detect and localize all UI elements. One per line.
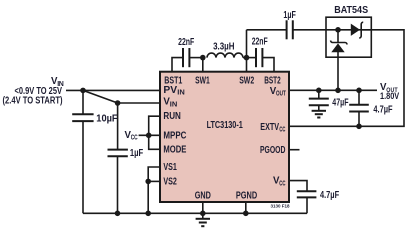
- svg-text:MODE: MODE: [163, 144, 186, 155]
- svg-text:VS2: VS2: [163, 177, 177, 188]
- svg-text:47µF: 47µF: [332, 98, 348, 109]
- svg-text:MPPC: MPPC: [163, 131, 186, 142]
- svg-text:4.7µF: 4.7µF: [373, 105, 392, 116]
- svg-text:10µF: 10µF: [96, 113, 117, 124]
- svg-text:BAT54S: BAT54S: [334, 5, 368, 16]
- svg-text:IN: IN: [177, 90, 185, 97]
- svg-text:CC: CC: [279, 180, 285, 187]
- svg-text:3130 F18: 3130 F18: [271, 203, 291, 208]
- svg-text:IN: IN: [170, 101, 178, 108]
- svg-text:RUN: RUN: [163, 111, 181, 122]
- svg-text:3.3µH: 3.3µH: [213, 42, 234, 53]
- svg-text:1.80V: 1.80V: [380, 91, 400, 101]
- svg-text:22nF: 22nF: [252, 37, 268, 48]
- svg-text:(2.4V TO START): (2.4V TO START): [3, 95, 63, 106]
- svg-text:SW1: SW1: [195, 75, 210, 86]
- svg-text:VS1: VS1: [163, 162, 177, 173]
- svg-text:1µF: 1µF: [130, 148, 143, 159]
- svg-text:PV: PV: [163, 85, 177, 96]
- svg-text:GND: GND: [195, 190, 211, 201]
- svg-text:OUT: OUT: [276, 91, 286, 98]
- svg-text:EXTV: EXTV: [260, 122, 279, 133]
- svg-text:4.7µF: 4.7µF: [320, 190, 339, 201]
- svg-text:1µF: 1µF: [283, 10, 295, 21]
- svg-text:SW2: SW2: [239, 75, 254, 86]
- svg-text:LTC3130-1: LTC3130-1: [207, 120, 244, 131]
- svg-text:BST2: BST2: [264, 75, 281, 86]
- svg-text:PGND: PGND: [236, 190, 257, 201]
- svg-text:22nF: 22nF: [178, 37, 194, 48]
- svg-text:CC: CC: [131, 135, 138, 142]
- svg-text:CC: CC: [279, 127, 285, 134]
- svg-text:PGOOD: PGOOD: [260, 145, 285, 156]
